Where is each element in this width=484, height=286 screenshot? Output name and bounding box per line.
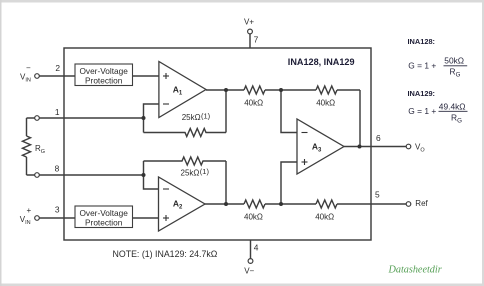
wire A2 inverting input branch (144, 161, 159, 189)
wire A3 inverting input branch (281, 90, 297, 133)
svg-text:50kΩ: 50kΩ (444, 55, 464, 65)
svg-text:40kΩ: 40kΩ (244, 213, 263, 222)
wire A1 inverting input branch (144, 104, 159, 133)
svg-text:V+: V+ (244, 17, 254, 26)
over-voltage protection block 1 (75, 64, 133, 86)
wire row B middle segment (265, 203, 316, 205)
resistor 40k R2 (316, 86, 337, 94)
wire A2 output (205, 203, 226, 205)
svg-text:8: 8 (55, 164, 60, 174)
svg-text:−: − (26, 64, 31, 73)
A3 minus mark (302, 132, 308, 134)
resistor RG (23, 136, 31, 157)
resistor 25k A2 feedback with leads (144, 157, 227, 165)
terminal V+ pin 7 (248, 29, 253, 34)
terminal pin 8 (35, 173, 40, 178)
node A3 output junction (358, 145, 362, 149)
svg-text:5: 5 (375, 190, 380, 200)
wire pin 4 V- (250, 240, 252, 259)
op-amp A2 triangle (159, 177, 206, 231)
terminal pin 1 (35, 116, 40, 121)
wire pin 1 (27, 117, 144, 119)
terminal VIN- pin 2 (35, 74, 40, 79)
svg-text:G = 1 +: G = 1 + (408, 61, 436, 71)
svg-text:Over-Voltage: Over-Voltage (79, 208, 128, 218)
terminal Vo pin 6 (406, 144, 411, 149)
wire row A to feedback corner (337, 89, 360, 91)
resistor 40k R3 (244, 200, 265, 208)
svg-text:7: 7 (254, 35, 259, 45)
resistor 40k R1 (244, 86, 265, 94)
wire row A middle segment (265, 89, 316, 91)
terminal Ref pin 5 (406, 202, 411, 207)
op-amp A3 triangle (297, 119, 344, 174)
wire A1 feedback down (225, 90, 227, 133)
wire OVP2 to A2 plus input (133, 217, 159, 219)
svg-text:INA128:: INA128: (408, 37, 436, 46)
svg-text:6: 6 (376, 133, 381, 143)
wire OVP1 to A1 plus input (133, 75, 159, 77)
svg-text:Protection: Protection (85, 218, 123, 228)
svg-text:NOTE: (1) INA129: 24.7kΩ: NOTE: (1) INA129: 24.7kΩ (113, 249, 218, 259)
svg-text:1: 1 (55, 107, 60, 117)
svg-text:3: 3 (55, 205, 60, 215)
node A1 output junction (224, 88, 228, 92)
node A2 output junction (224, 202, 228, 206)
wire A3 non-inverting input branch (281, 162, 297, 204)
node pin8 feedback junction (142, 173, 146, 177)
wire row A first segment (226, 89, 244, 91)
svg-text:Over-Voltage: Over-Voltage (79, 66, 128, 76)
over-voltage protection block 2 (75, 206, 133, 228)
wire A2 feedback down (225, 161, 227, 204)
wire pin 8 (27, 174, 144, 176)
wire A3 feedback down (359, 90, 361, 147)
svg-text:V−: V− (244, 266, 254, 275)
resistor 40k R4 (316, 200, 337, 208)
wire pin2 input (39, 75, 75, 77)
wire RG branch top (26, 118, 28, 136)
svg-text:G = 1 +: G = 1 + (408, 106, 436, 116)
svg-text:Ref: Ref (415, 199, 428, 208)
node pin1 feedback junction (142, 116, 146, 120)
op-amp A1 triangle (159, 62, 206, 118)
svg-text:Protection: Protection (85, 76, 123, 86)
node row B junction (279, 202, 283, 206)
svg-text:40kΩ: 40kΩ (316, 99, 335, 108)
svg-text:4: 4 (254, 242, 259, 252)
svg-text:Datasheetdir: Datasheetdir (388, 264, 442, 275)
IC outline box U1 (64, 48, 371, 240)
wire A1 output (206, 89, 226, 91)
svg-text:2: 2 (55, 63, 60, 73)
A1 plus mark (163, 75, 169, 77)
terminal V- pin 4 (248, 259, 253, 264)
wire A3 output to Vo terminal (344, 146, 406, 148)
A2 minus mark (163, 188, 169, 190)
wire pin 7 V+ (249, 34, 251, 48)
A1 minus mark (163, 103, 169, 105)
svg-text:40kΩ: 40kΩ (315, 213, 334, 222)
svg-text:INA129:: INA129: (408, 89, 436, 98)
node row A junction (279, 88, 283, 92)
op-amp input polarity marks (163, 73, 308, 221)
svg-text:40kΩ: 40kΩ (244, 99, 263, 108)
svg-text:+: + (27, 206, 32, 215)
terminal VIN+ pin 3 (35, 216, 40, 221)
A2 plus mark (163, 217, 169, 219)
wire pin3 input (39, 217, 75, 219)
wire RG branch bottom (26, 157, 28, 175)
svg-text:49.4kΩ: 49.4kΩ (439, 102, 466, 112)
wire row B first segment (226, 203, 244, 205)
wire row B to Ref terminal (337, 203, 406, 205)
svg-text:INA128, INA129: INA128, INA129 (288, 57, 355, 67)
resistor 25k A1 feedback with leads (144, 129, 227, 137)
A3 plus mark (302, 161, 308, 163)
